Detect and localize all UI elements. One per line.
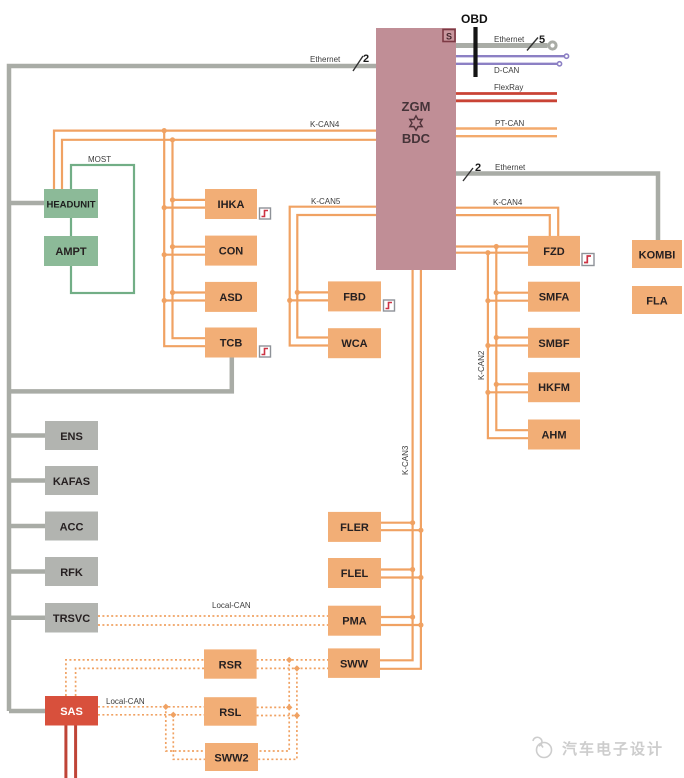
wire K-CAN4 right to FZD top [456, 208, 558, 236]
svg-text:RSR: RSR [219, 659, 242, 671]
svg-text:2: 2 [475, 162, 481, 174]
ECU IHKA [205, 189, 257, 219]
wire Ethernet stub to HEADUNIT [9, 201, 44, 206]
ECU AHM [528, 420, 580, 450]
icon flash TCB [260, 346, 271, 357]
ECU TRSVC [45, 603, 98, 633]
wire Ethernet return from TCB [9, 356, 232, 391]
svg-text:SMFA: SMFA [539, 292, 570, 304]
svg-text:ASD: ASD [219, 292, 242, 304]
ECU SWW [328, 648, 380, 678]
MOST ring [71, 155, 134, 293]
wire IHKA stubs [164, 200, 205, 208]
ECU FLA [632, 286, 682, 314]
ECU PMA [328, 606, 381, 636]
svg-text:TCB: TCB [220, 338, 243, 350]
wire D-CAN pair [456, 56, 564, 64]
svg-text:ENS: ENS [60, 431, 83, 443]
svg-text:Local-CAN: Local-CAN [106, 697, 145, 706]
icon flash FBD [384, 300, 395, 311]
wire Ethernet gray loop left [9, 66, 376, 711]
svg-text:FLA: FLA [646, 296, 667, 308]
junction dots K-CAN5 [287, 290, 300, 303]
ECU RFK [45, 557, 98, 586]
ECU FBD [328, 281, 381, 311]
svg-text:SAS: SAS [60, 706, 83, 718]
wire Ethernet stub to ENS [9, 433, 45, 438]
wire Ethernet stub to ACC [9, 524, 45, 529]
ECU HEADUNIT [44, 189, 98, 218]
svg-text:KAFAS: KAFAS [53, 476, 90, 488]
ECU AMPT [44, 236, 98, 266]
ECU RSR [204, 649, 257, 678]
svg-text:Ethernet: Ethernet [494, 35, 525, 44]
svg-text:FlexRay: FlexRay [494, 83, 523, 92]
wire FlexRay pair [456, 94, 557, 101]
wire CON stubs [164, 247, 205, 255]
ECU KAFAS [45, 466, 98, 495]
ECU FLER [328, 512, 381, 542]
ECU SMBF [528, 328, 580, 358]
svg-text:K-CAN5: K-CAN5 [311, 197, 341, 206]
svg-text:BDC: BDC [402, 131, 431, 146]
ECU CON [205, 236, 257, 266]
junction diamonds Local-CAN [163, 657, 301, 719]
icon flash FZD [582, 254, 594, 266]
svg-text:K-CAN4: K-CAN4 [310, 120, 340, 129]
wire K-CAN2 bus [456, 247, 528, 439]
svg-text:K-CAN3: K-CAN3 [401, 445, 410, 475]
wire K-CAN4 left bus [54, 131, 376, 347]
svg-text:CON: CON [219, 246, 244, 258]
svg-text:AMPT: AMPT [55, 246, 86, 258]
svg-text:TRSVC: TRSVC [53, 613, 90, 625]
watermark logo [533, 737, 552, 757]
svg-text:Local-CAN: Local-CAN [212, 601, 251, 610]
wire Local-CAN TRSVC to PMA [98, 616, 328, 625]
junction dots K-CAN4 left [162, 128, 176, 303]
svg-text:汽车电子设计: 汽车电子设计 [562, 740, 664, 758]
svg-text:KOMBI: KOMBI [639, 250, 676, 262]
svg-text:5: 5 [539, 34, 545, 46]
svg-text:FLER: FLER [340, 522, 369, 534]
wire Local-CAN SAS to RSL and SWW2 [98, 707, 205, 760]
ECU ENS [45, 421, 98, 450]
wire K-CAN5 bus [290, 207, 376, 346]
ECU KOMBI [632, 240, 682, 268]
ECU SWW2 [205, 743, 258, 771]
ECU FLEL [328, 558, 381, 588]
ECU SAS [45, 696, 98, 726]
svg-text:SWW: SWW [340, 658, 369, 670]
OBD connector bar [461, 12, 488, 77]
junction dots K-CAN3 [410, 520, 424, 628]
svg-text:ZGM: ZGM [402, 99, 431, 114]
svg-text:HEADUNIT: HEADUNIT [46, 200, 95, 211]
svg-text:RFK: RFK [60, 567, 83, 579]
svg-text:MOST: MOST [88, 155, 111, 164]
svg-text:PMA: PMA [342, 616, 367, 628]
svg-text:SWW2: SWW2 [214, 753, 248, 765]
ECU FZD [528, 236, 580, 266]
svg-text:WCA: WCA [341, 338, 367, 350]
wire Ethernet stub to RFK [9, 569, 45, 574]
svg-text:FLEL: FLEL [341, 568, 369, 580]
svg-text:K-CAN4: K-CAN4 [493, 198, 523, 207]
svg-text:D-CAN: D-CAN [494, 66, 520, 75]
ECU SMFA [528, 282, 580, 312]
label Ethernet right [463, 162, 526, 181]
wire Local-CAN vertical returns [257, 660, 297, 759]
wire Ethernet stub to KAFAS [9, 478, 45, 483]
wire ASD stubs [164, 293, 205, 301]
wire K-CAN3 bus [380, 270, 421, 669]
wire Ethernet stub to SAS [9, 709, 45, 714]
svg-text:2: 2 [363, 53, 369, 65]
svg-text:Ethernet: Ethernet [495, 163, 526, 172]
svg-text:S: S [446, 32, 452, 42]
svg-text:Ethernet: Ethernet [310, 55, 341, 64]
wire PT-CAN pair [456, 129, 557, 137]
svg-text:IHKA: IHKA [218, 199, 245, 211]
svg-text:OBD: OBD [461, 12, 488, 26]
ECU HKFM [528, 372, 580, 402]
svg-text:HKFM: HKFM [538, 382, 570, 394]
svg-text:FZD: FZD [543, 246, 564, 258]
ECU RSL [204, 697, 257, 726]
ECU ASD [205, 282, 257, 312]
wire Ethernet stub to TRSVC [9, 615, 45, 620]
wire Ethernet OBD [456, 34, 556, 51]
svg-text:SMBF: SMBF [538, 338, 569, 350]
S icon on ZGM [443, 30, 455, 42]
icon flash IHKA [260, 208, 271, 219]
svg-text:FBD: FBD [343, 291, 366, 303]
svg-text:AHM: AHM [541, 430, 566, 442]
svg-text:ACC: ACC [60, 522, 84, 534]
ECU TCB [205, 328, 257, 358]
wire Ethernet to KOMBI [456, 174, 658, 241]
ECU WCA [328, 328, 381, 358]
label Ethernet top-left [310, 53, 369, 71]
junction dots K-CAN2 [485, 244, 499, 395]
wire Local-CAN RSR right [257, 660, 328, 669]
svg-text:PT-CAN: PT-CAN [495, 119, 525, 128]
wire FlexRay below SAS [66, 726, 76, 778]
svg-text:K-CAN2: K-CAN2 [477, 350, 486, 380]
ECU ACC [45, 512, 98, 541]
gateway ZGM/BDC [376, 28, 456, 270]
wire Local-CAN SAS to RSR [66, 660, 204, 696]
svg-text:RSL: RSL [219, 707, 241, 719]
